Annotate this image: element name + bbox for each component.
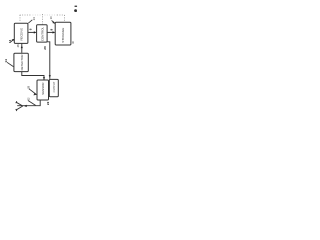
- svg-text:28: 28: [27, 85, 31, 88]
- svg-text:8: 8: [49, 29, 53, 31]
- svg-text:12: 12: [8, 39, 12, 43]
- svg-text:SENSOR: SENSOR: [41, 82, 45, 94]
- svg-text:STORAGE: STORAGE: [61, 28, 65, 43]
- svg-text:24: 24: [32, 17, 36, 21]
- svg-text:30: 30: [71, 40, 75, 43]
- svg-text:32: 32: [26, 97, 30, 100]
- svg-text:OUTPUT: OUTPUT: [52, 81, 56, 92]
- svg-text:DETECTOR: DETECTOR: [20, 55, 24, 71]
- svg-text:RECEIVE: RECEIVE: [19, 28, 23, 41]
- svg-text:10: 10: [49, 16, 53, 20]
- svg-text:6: 6: [29, 28, 33, 30]
- svg-text:22: 22: [46, 101, 50, 105]
- svg-text:14: 14: [4, 59, 8, 63]
- svg-text:26: 26: [16, 44, 20, 47]
- svg-text:CONTROL: CONTROL: [41, 27, 45, 42]
- svg-text:20: 20: [43, 46, 47, 50]
